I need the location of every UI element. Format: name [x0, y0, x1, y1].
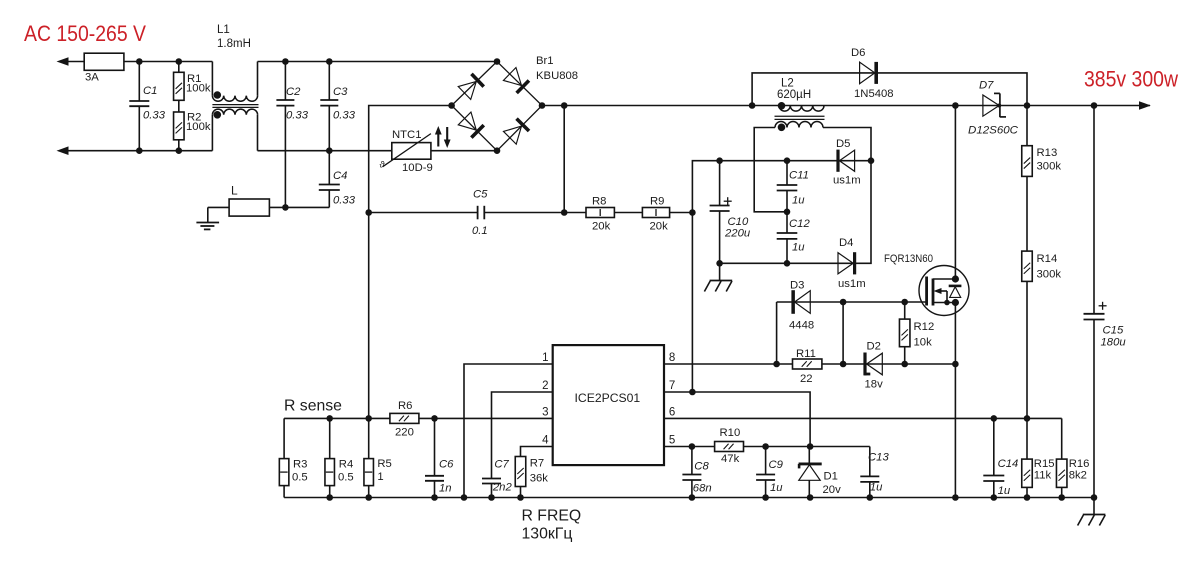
svg-text:us1m: us1m: [833, 175, 861, 187]
capacitor C13 1u: [869, 447, 871, 477]
wire pin3 line: [284, 417, 553, 419]
ground chassis output: [1093, 498, 1095, 515]
svg-text:1N5408: 1N5408: [854, 88, 894, 100]
svg-text:R7: R7: [530, 458, 544, 470]
svg-text:10D-9: 10D-9: [402, 162, 433, 174]
junction R6 right C6 tap: [431, 415, 438, 422]
junction bridge right node: [539, 102, 546, 109]
junction ground rail C9: [762, 494, 769, 501]
svg-text:C15: C15: [1103, 325, 1124, 337]
svg-text:C1: C1: [143, 85, 157, 97]
ground earth symbol: [207, 207, 209, 222]
ground chassis C10: [719, 263, 721, 280]
svg-text:R4: R4: [339, 459, 353, 471]
svg-text:220: 220: [395, 427, 414, 439]
wire pin5 line: [664, 446, 870, 448]
svg-text:620µH: 620µH: [777, 89, 811, 101]
capacitor C8 68n: [691, 447, 693, 475]
junction Q1 drain node: [952, 275, 959, 282]
junction ground rail R5: [365, 494, 372, 501]
junction ground rail C14: [991, 494, 998, 501]
inductor L1 top winding: [212, 96, 257, 102]
svg-text:R sense: R sense: [284, 398, 342, 415]
svg-text:4448: 4448: [789, 320, 814, 332]
svg-text:C10: C10: [728, 216, 749, 228]
wire top rail to bridge: [258, 61, 498, 63]
wire L1 bottom-left lead: [211, 115, 213, 151]
wire R8-R9: [614, 212, 642, 214]
junction R10 right C9 tap: [762, 443, 769, 450]
svg-text:0.33: 0.33: [333, 110, 356, 122]
junction ground rail C15: [1091, 494, 1098, 501]
inductor L1 core: [212, 104, 258, 106]
capacitor C6 1n: [434, 418, 436, 475]
diode D7 D12S60C: [983, 95, 999, 116]
bridge diode D-d (bottom-right edge): [503, 118, 529, 144]
resistor R6 220: [390, 413, 419, 423]
svg-text:C7: C7: [494, 459, 509, 471]
junction D1 top: [807, 443, 814, 450]
junction source at gate-return: [952, 361, 959, 368]
svg-text:3: 3: [542, 407, 548, 419]
resistor R3 0.5: [283, 418, 285, 458]
resistor R5 1: [368, 418, 370, 458]
junction ground rail C13: [867, 494, 874, 501]
svg-text:L: L: [231, 184, 238, 198]
junction bridge left node: [448, 102, 455, 109]
junction R5 top / bridge minus: [365, 415, 372, 422]
svg-text:1: 1: [542, 352, 548, 364]
svg-text:D7: D7: [979, 80, 994, 92]
svg-text:4: 4: [542, 435, 549, 447]
wire bridge minus to sense column: [369, 106, 452, 213]
svg-text:R FREQ: R FREQ: [522, 508, 582, 525]
svg-text:C14: C14: [998, 458, 1019, 470]
capacitor C12 1u: [786, 212, 788, 233]
svg-text:0.33: 0.33: [143, 110, 166, 122]
svg-text:D6: D6: [851, 47, 865, 59]
svg-text:R8: R8: [592, 196, 606, 208]
junction C2 bottom on L line: [282, 204, 289, 211]
svg-text:C5: C5: [473, 189, 488, 201]
svg-text:D12S60C: D12S60C: [968, 125, 1019, 137]
svg-text:6: 6: [669, 407, 675, 419]
capacitor C9 1u: [765, 447, 767, 475]
inductor L2 main winding: [779, 106, 824, 112]
resistor R15 11k: [1026, 418, 1028, 459]
wire ground rail: [284, 497, 1094, 499]
resistor R4 0.5: [329, 418, 331, 458]
junction pin7 R9 tap: [689, 389, 696, 396]
svg-text:R13: R13: [1037, 147, 1058, 159]
svg-text:385v 300w: 385v 300w: [1084, 67, 1178, 92]
diode D2 zener 18v: [863, 353, 866, 376]
bridge diode D-a (left-top edge): [458, 74, 484, 100]
wire bridge plus rail: [542, 105, 1150, 107]
junction R4 top: [326, 415, 333, 422]
junction R9 vertical: [689, 209, 696, 216]
svg-text:11k: 11k: [1034, 470, 1052, 482]
junction ground rail R4: [326, 494, 333, 501]
diode D4 us1m: [838, 253, 853, 274]
svg-text:D3: D3: [790, 280, 804, 292]
svg-text:300k: 300k: [1037, 161, 1062, 173]
capacitor C11 1u: [786, 161, 788, 185]
svg-text:AC 150-265 V: AC 150-265 V: [24, 21, 146, 46]
svg-text:2n2: 2n2: [492, 482, 513, 494]
capacitor C1: [138, 62, 140, 102]
wire D3 corner to pin8: [776, 302, 778, 364]
wire R1-R2: [178, 100, 180, 112]
diode D5 us1m: [839, 150, 854, 171]
resistor R16 8k2: [1061, 418, 1063, 459]
resistor R1 100k: [178, 62, 180, 73]
svg-text:10k: 10k: [914, 337, 933, 349]
svg-text:KBU808: KBU808: [536, 70, 578, 82]
wire L1 bottom-right lead: [257, 115, 259, 151]
wire top AC rail: [62, 61, 212, 63]
svg-text:C9: C9: [769, 459, 784, 471]
inductor L1 phase dot bottom: [214, 111, 222, 119]
svg-text:20k: 20k: [650, 221, 669, 233]
fuse F1 3A: [84, 53, 124, 70]
svg-text:D2: D2: [867, 341, 881, 353]
svg-text:8k2: 8k2: [1069, 470, 1087, 482]
junction pin8 D3 tap: [773, 361, 780, 368]
wire R13-R14: [1026, 176, 1028, 251]
diode D3 4448: [795, 291, 811, 314]
svg-text:D4: D4: [839, 237, 853, 249]
wire C5 line left: [369, 212, 478, 214]
junction C11 top: [784, 157, 791, 164]
svg-text:C3: C3: [333, 86, 348, 98]
svg-text:R5: R5: [377, 458, 391, 470]
wire rectifier plus down: [563, 106, 565, 213]
svg-text:0.5: 0.5: [338, 472, 354, 484]
capacitor C14 1u: [993, 418, 995, 475]
svg-text:ICE2PCS01: ICE2PCS01: [575, 391, 641, 405]
svg-text:68n: 68n: [693, 483, 712, 495]
junction C12 bottom: [784, 260, 791, 267]
svg-text:20k: 20k: [592, 221, 611, 233]
junction C11-C12 / aux return: [784, 209, 791, 216]
wire pin1 line: [464, 364, 553, 498]
junction Q1 body node: [944, 300, 950, 306]
svg-text:3A: 3A: [85, 72, 99, 84]
svg-text:L1: L1: [217, 24, 230, 36]
junction C2 top: [282, 58, 289, 65]
junction R12 bottom: [901, 361, 908, 368]
bridge Br1 diamond wires: [452, 62, 542, 151]
svg-text:0.33: 0.33: [333, 195, 356, 207]
wire Q1 drain lead: [954, 106, 956, 280]
svg-text:R12: R12: [914, 321, 935, 333]
svg-text:1n: 1n: [439, 483, 452, 495]
wire pin6 line: [664, 417, 1062, 419]
svg-text:Br1: Br1: [536, 55, 554, 67]
svg-text:C12: C12: [789, 218, 810, 230]
junction ground rail C8: [689, 494, 696, 501]
svg-text:R15: R15: [1034, 458, 1055, 470]
svg-text:22: 22: [800, 373, 813, 385]
bridge diode D-b (top-right edge): [503, 68, 529, 94]
svg-text:D1: D1: [824, 471, 838, 483]
wire pin7 line: [664, 392, 810, 447]
svg-text:C11: C11: [789, 170, 809, 182]
svg-text:47k: 47k: [721, 453, 740, 465]
svg-text:1u: 1u: [792, 195, 805, 207]
junction R2 bottom: [176, 147, 183, 154]
junction C10 bottom: [716, 260, 723, 267]
wire VCC line: [720, 160, 871, 162]
wire L1 top-left lead: [211, 62, 213, 96]
inductor L2 aux winding: [775, 122, 823, 128]
svg-text:5: 5: [669, 435, 675, 447]
svg-text:R14: R14: [1037, 253, 1058, 265]
bridge diode D-c (left-bottom edge): [458, 112, 484, 138]
svg-text:130кГц: 130кГц: [522, 526, 573, 543]
junction ground rail Q1 source: [952, 494, 959, 501]
wire bridge minus down: [368, 213, 370, 419]
junction R14 bottom / R15 top: [1024, 415, 1031, 422]
svg-text:R9: R9: [650, 196, 664, 208]
svg-text:R16: R16: [1069, 458, 1090, 470]
junction bridge top node: [494, 58, 501, 65]
transistor Q1 channel bar: [932, 279, 935, 306]
resistor R11 22: [793, 359, 822, 369]
svg-text:C4: C4: [333, 170, 347, 182]
svg-text:1.8mH: 1.8mH: [217, 38, 251, 50]
junction ground rail D1: [807, 494, 814, 501]
inductor L2 phase dot aux: [778, 124, 786, 132]
svg-text:C6: C6: [439, 459, 454, 471]
junction R1 top: [176, 58, 183, 65]
wire D6 bypass: [752, 73, 1027, 106]
transistor Q1 body diode: [949, 285, 962, 288]
svg-text:D5: D5: [836, 138, 850, 150]
inductor L2 phase dot main: [778, 102, 786, 110]
wire bottom AC rail left: [62, 150, 212, 152]
junction C15 top: [1091, 102, 1098, 109]
junction ground rail C7: [488, 494, 495, 501]
svg-text:R3: R3: [293, 459, 307, 471]
junction plus rail tap: [561, 102, 568, 109]
junction C3 bottom / C4 top: [326, 147, 333, 154]
capacitor C5 0.1: [477, 206, 479, 220]
inductor L1 phase dot top: [214, 91, 222, 99]
transistor Q1 body circle: [919, 266, 969, 316]
junction Q1 source node: [952, 299, 959, 306]
junction ground rail R15: [1024, 494, 1031, 501]
diode D6 1N5408: [860, 62, 875, 84]
junction bridge bottom node: [494, 147, 501, 154]
wire gate line: [777, 301, 927, 303]
capacitor C7 2n2: [482, 478, 501, 480]
junction ground rail R7: [517, 494, 524, 501]
wire gate mid down: [842, 302, 844, 364]
svg-text:7: 7: [669, 380, 675, 392]
wire L2 aux left return: [754, 128, 787, 212]
wire L2 aux right: [823, 128, 871, 264]
svg-text:C2: C2: [286, 86, 301, 98]
NTC arrow down: [446, 127, 448, 140]
inductor L2 core: [775, 115, 825, 117]
capacitor C15 180u: [1093, 106, 1095, 314]
wire L1 top-right lead: [257, 62, 259, 96]
junction R11 right: [840, 361, 847, 368]
resistor R2 100k: [174, 112, 185, 140]
svg-text:R11: R11: [796, 348, 816, 360]
svg-text:0.5: 0.5: [292, 472, 308, 484]
wire C5 to R8: [484, 212, 586, 214]
resistor R14 300k: [1022, 251, 1033, 281]
svg-text:1u: 1u: [770, 482, 783, 494]
svg-text:2: 2: [542, 380, 548, 392]
junction R12 top: [901, 299, 908, 306]
svg-text:C8: C8: [694, 461, 709, 473]
resistor R13 300k: [1026, 106, 1028, 146]
svg-text:NTC1: NTC1: [392, 129, 422, 141]
resistor R12 10k: [904, 302, 906, 319]
svg-text:100k: 100k: [186, 121, 211, 133]
svg-text:300k: 300k: [1037, 269, 1062, 281]
resistor R7 36k: [515, 457, 526, 487]
resistor R8 20k: [586, 208, 614, 218]
wire pin8 line: [664, 363, 955, 365]
transistor Q1 source stub: [933, 302, 955, 304]
svg-text:8: 8: [669, 352, 675, 364]
output arrow: [1139, 101, 1151, 110]
junction pin5 C8 tap: [689, 443, 696, 450]
junction C1 bottom: [136, 147, 143, 154]
junction ground rail C6: [431, 494, 438, 501]
capacitor C3: [328, 62, 330, 101]
transistor Q1 body stub: [940, 290, 947, 292]
resistor R9 20k: [642, 208, 669, 218]
op-amp U1 ICE2PCS01 box: [553, 345, 664, 465]
junction rail after D7: [1024, 102, 1031, 109]
junction D6 left: [749, 102, 756, 109]
svg-text:0.1: 0.1: [472, 225, 488, 237]
NTC arrow up: [437, 132, 439, 147]
wire D4 line: [720, 262, 855, 264]
svg-text:FQR13N60: FQR13N60: [884, 253, 933, 265]
svg-text:20v: 20v: [823, 484, 842, 496]
svg-text:220u: 220u: [724, 228, 751, 240]
capacitor C2: [284, 62, 286, 101]
svg-text:36k: 36k: [530, 473, 549, 485]
junction rail at drain: [952, 102, 959, 109]
junction D5 anode node: [868, 157, 875, 164]
svg-text:R10: R10: [720, 427, 741, 439]
svg-text:0.33: 0.33: [286, 110, 309, 122]
svg-text:100k: 100k: [186, 83, 211, 95]
junction C10 top: [716, 157, 723, 164]
wire R9 vertical to pin7: [692, 161, 719, 392]
junction gate mid: [840, 299, 847, 306]
thermistor NTC1 10D-9: [392, 143, 431, 160]
wire bottom rail to bridge: [258, 150, 498, 152]
svg-text:us1m: us1m: [838, 278, 866, 290]
svg-text:L2: L2: [781, 78, 794, 90]
junction C5 line mid: [561, 209, 568, 216]
transistor Q1 gate bar: [925, 277, 928, 306]
svg-text:1u: 1u: [870, 482, 883, 494]
transistor Q1 drain stub: [933, 278, 955, 280]
svg-text:18v: 18v: [865, 379, 884, 391]
capacitor C4: [328, 151, 330, 185]
wire pin4 line: [521, 447, 553, 457]
svg-text:R6: R6: [398, 400, 412, 412]
input arrow bottom (AC neutral): [57, 146, 69, 155]
capacitor C10 220u: [719, 161, 721, 206]
svg-text:180u: 180u: [1101, 337, 1127, 349]
svg-text:1: 1: [377, 471, 383, 483]
wire pin2 line: [492, 392, 553, 479]
junction C3 top: [326, 58, 333, 65]
wire Q1 source lead: [954, 303, 956, 498]
svg-text:1u: 1u: [998, 485, 1011, 497]
inductor L1 bottom winding: [212, 109, 257, 115]
junction ground rail R16: [1058, 494, 1065, 501]
junction C5 line left: [365, 209, 372, 216]
svg-text:1u: 1u: [792, 242, 805, 254]
resistor R10 47k: [715, 442, 744, 452]
junction C1 top: [136, 58, 143, 65]
input arrow top (AC line): [57, 57, 69, 66]
junction C14 top: [991, 415, 998, 422]
diode D1 zener 20v: [808, 447, 810, 464]
svg-text:ϑ: ϑ: [380, 160, 386, 170]
wire R9 right: [670, 212, 693, 214]
junction ground rail pin1: [461, 494, 468, 501]
svg-text:C13: C13: [868, 452, 889, 464]
